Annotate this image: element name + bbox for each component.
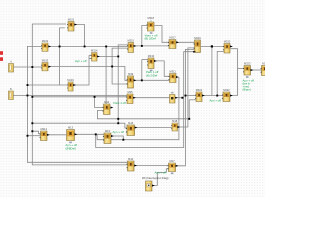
component U12 — [223, 44, 230, 54]
svg-text:WI (Interruption Flag): WI (Interruption Flag) — [142, 176, 168, 180]
mark below U15 — [150, 70, 153, 72]
junction x27.4 row y85 — [27, 84, 29, 86]
wire U19 lower input from x189 net — [189, 99, 196, 101]
wire drop x112.8 from bus — [112, 48, 128, 84]
svg-text:M17: M17 — [169, 159, 175, 163]
svg-text:Ayn + off: Ayn + off — [210, 99, 222, 103]
wire P-left2 output row y95.4 — [13, 94, 127, 96]
component U21 — [170, 93, 176, 103]
svg-text:Ayn + off: Ayn + off — [155, 171, 167, 175]
svg-text:Park 1 off: Park 1 off — [114, 101, 127, 105]
wire U7 output to x118 riser into U8 — [97, 55, 118, 57]
svg-text:M104: M104 — [67, 78, 74, 82]
wire x118 vertical down — [117, 56, 119, 123]
component U6 — [67, 82, 73, 91]
junction x96 row y134.3 — [95, 133, 97, 135]
junction x59.5 on bus y46 — [59, 46, 61, 48]
wire U15 input lower from bus handled above; U15 output chain to U16 — [154, 61, 170, 76]
component U16 — [169, 74, 176, 83]
wire U23 output to U27 input — [135, 127, 172, 129]
component U22 M12 — [103, 104, 110, 114]
wire U27 output riser x187.9 to U11 pin — [178, 48, 194, 127]
component U29 M17 — [167, 163, 175, 172]
wire x97 down to row y139.7 — [97, 77, 179, 140]
wire junction x96 down to row y147.5 — [96, 52, 195, 148]
svg-text:M310: M310 — [148, 54, 155, 58]
junction x118.7 row y56.4 — [117, 56, 119, 58]
wire U10 output to U11 — [176, 41, 194, 43]
wire x59 vertical from U1 lower pin to U6 — [60, 28, 68, 85]
svg-text:M39: M39 — [128, 72, 134, 76]
wire U28 output to U29 — [134, 165, 168, 167]
component U23 M16 — [126, 125, 135, 135]
wire U6 output up to U7 pins — [73, 56, 91, 85]
svg-text:M13: M13 — [68, 126, 74, 130]
component U13 — [243, 66, 250, 76]
svg-text:M18: M18 — [172, 119, 178, 123]
wire U26 output to U25 — [47, 134, 66, 136]
wire U18 output to U21 — [134, 97, 170, 99]
wire U13 output to edge comp — [251, 69, 261, 71]
svg-text:M3: M3 — [262, 62, 265, 66]
wire drop x106 from bus — [105, 46, 107, 105]
svg-text:(8) 2/Def: (8) 2/Def — [145, 37, 156, 41]
wire WI comp up to U29 region — [152, 169, 168, 186]
wire x141.8 vertical — [141, 60, 143, 81]
wire stub U7 second pin — [89, 58, 91, 60]
component U2 — [41, 43, 48, 51]
wire bus y46 segment A — [49, 45, 128, 47]
wire U9 input riser — [142, 26, 148, 46]
component U28 M14 — [127, 161, 134, 171]
component U26 M214 — [40, 131, 47, 141]
junction x32.3 row y131.2 — [31, 130, 33, 132]
wire row y85 from x27 net to U6 — [27, 84, 59, 86]
junction x27.4 row y135.7 — [27, 135, 29, 137]
svg-text:M103: M103 — [42, 59, 49, 63]
junction x189.2 row y118.8 — [188, 118, 190, 120]
svg-text:M320: M320 — [224, 40, 231, 44]
junction x141.8 on bus y46 — [141, 45, 143, 47]
svg-text:M102: M102 — [42, 39, 49, 43]
junction x84.5 on bus y46 — [84, 46, 86, 48]
component U10 — [168, 40, 176, 49]
wire U17 output row y80 — [134, 79, 170, 81]
red text fragment left edge 1 — [0, 51, 3, 55]
wire U12 output down to U13 and bottom row — [230, 49, 237, 96]
wire U19 upper input from x185 net — [185, 95, 196, 97]
svg-text:M321: M321 — [196, 88, 203, 92]
wire row y67 from A1 to U3 — [14, 66, 42, 68]
wire U9 output down to U15 input — [154, 26, 169, 43]
junction x112.8 row y66.5 — [111, 66, 113, 68]
junction x32.3 row y123.2 — [31, 122, 33, 124]
junction x185.4 row y95.5 — [185, 95, 187, 97]
svg-text:(8/pm): (8/pm) — [243, 88, 251, 92]
junction x141.8 row y80.3 — [141, 79, 143, 81]
wire net-x27 vertical left bus — [27, 46, 127, 162]
wire U11 output to U12 — [201, 45, 224, 47]
wire riser x141.8 from U17 output row to U15 input — [142, 59, 148, 61]
svg-text:M322: M322 — [223, 88, 230, 92]
mark below U29 — [171, 173, 174, 175]
mark below U9 — [150, 32, 153, 34]
component U19 — [195, 92, 202, 102]
wire U1 output loop down to bus — [74, 25, 84, 47]
svg-text:M16: M16 — [128, 121, 134, 125]
wire row y131.2 from x32 net to U26 — [32, 131, 40, 133]
wire M15 output join y139.7 — [111, 136, 123, 140]
junction x123.3 row y139.7 — [122, 139, 124, 141]
component U3 — [41, 63, 48, 71]
svg-text:(8/8Def): (8/8Def) — [66, 147, 76, 151]
junction x32.3 row y96.8 — [31, 96, 33, 98]
svg-text:Ayn + off: Ayn + off — [75, 59, 87, 63]
component U18 — [126, 94, 133, 104]
svg-text:M323: M323 — [244, 62, 251, 66]
wire net-x32 vertical left bus — [32, 24, 127, 165]
junction x27.4 row y95.4 — [27, 95, 29, 97]
wire long row y123.2 into U23 — [32, 123, 127, 128]
component B input port — [9, 89, 14, 99]
component U30 WI flag — [146, 181, 153, 191]
wire bus y46 segment B — [134, 45, 169, 47]
wire U3 output row y66.5 to U17 — [49, 66, 128, 80]
svg-text:M214: M214 — [40, 127, 47, 131]
junction x217.2 row y95.5 — [216, 95, 218, 97]
component U11 — [194, 40, 201, 52]
wire U19 output to U20 — [202, 95, 223, 97]
component U27 — [171, 123, 177, 131]
component U8 — [127, 43, 133, 53]
component U24 M15 — [103, 133, 111, 143]
component U15 — [147, 58, 154, 68]
component U25 M13 — [67, 126, 75, 141]
red text fragment left edge 2 — [0, 57, 3, 61]
component U14 edge — [261, 66, 269, 76]
svg-text:Ayn + off: Ayn + off — [113, 130, 125, 134]
junction x32 row y67 — [31, 66, 33, 68]
svg-text:M317: M317 — [169, 36, 176, 40]
wire U25 output row to M15 — [75, 133, 104, 135]
svg-text:M314: M314 — [91, 49, 98, 53]
svg-text:M315: M315 — [127, 39, 134, 43]
junction x211.9 on wire y46.4 — [211, 45, 213, 47]
junction x106.3 on bus y46 — [105, 46, 107, 48]
svg-text:M311: M311 — [170, 70, 177, 74]
mark below U25 — [69, 142, 72, 144]
component U20 — [222, 92, 230, 102]
svg-text:(8) 2/Def: (8) 2/Def — [146, 73, 157, 77]
svg-text:M15: M15 — [105, 129, 111, 133]
wire x217 vertical into U12 lower pin — [217, 51, 224, 95]
component A input port — [9, 61, 14, 72]
component U1 — [67, 22, 74, 32]
junction arrow x182.3 row y97.7 — [181, 97, 183, 99]
junction x118.7 row y123.2 — [117, 122, 119, 124]
wire row y96.8 from x32 net — [32, 96, 127, 98]
wire M12 lower loop to row y118.8 riser x189 — [95, 97, 104, 108]
svg-text:M12: M12 — [104, 100, 110, 104]
svg-text:M35: M35 — [127, 90, 133, 94]
component U7 — [91, 53, 97, 62]
wire U29 output riser x185.4 to U11 pin — [176, 49, 194, 165]
svg-text:M319: M319 — [194, 36, 201, 40]
junction x118.7 row y118.8 — [117, 118, 119, 120]
component U17 — [127, 76, 134, 88]
wire U21 output through bus junctions — [175, 97, 183, 99]
component U9 — [147, 22, 154, 31]
junction x94.5 row y96.8 — [94, 96, 96, 98]
wire branch into U13 input — [238, 68, 244, 70]
svg-text:M14: M14 — [128, 157, 134, 161]
wire x212 vertical — [211, 46, 213, 95]
svg-text:M101: M101 — [68, 18, 75, 22]
mark below U13 — [246, 76, 249, 78]
wire row y135.7 from x27 net to U26 — [27, 135, 40, 137]
